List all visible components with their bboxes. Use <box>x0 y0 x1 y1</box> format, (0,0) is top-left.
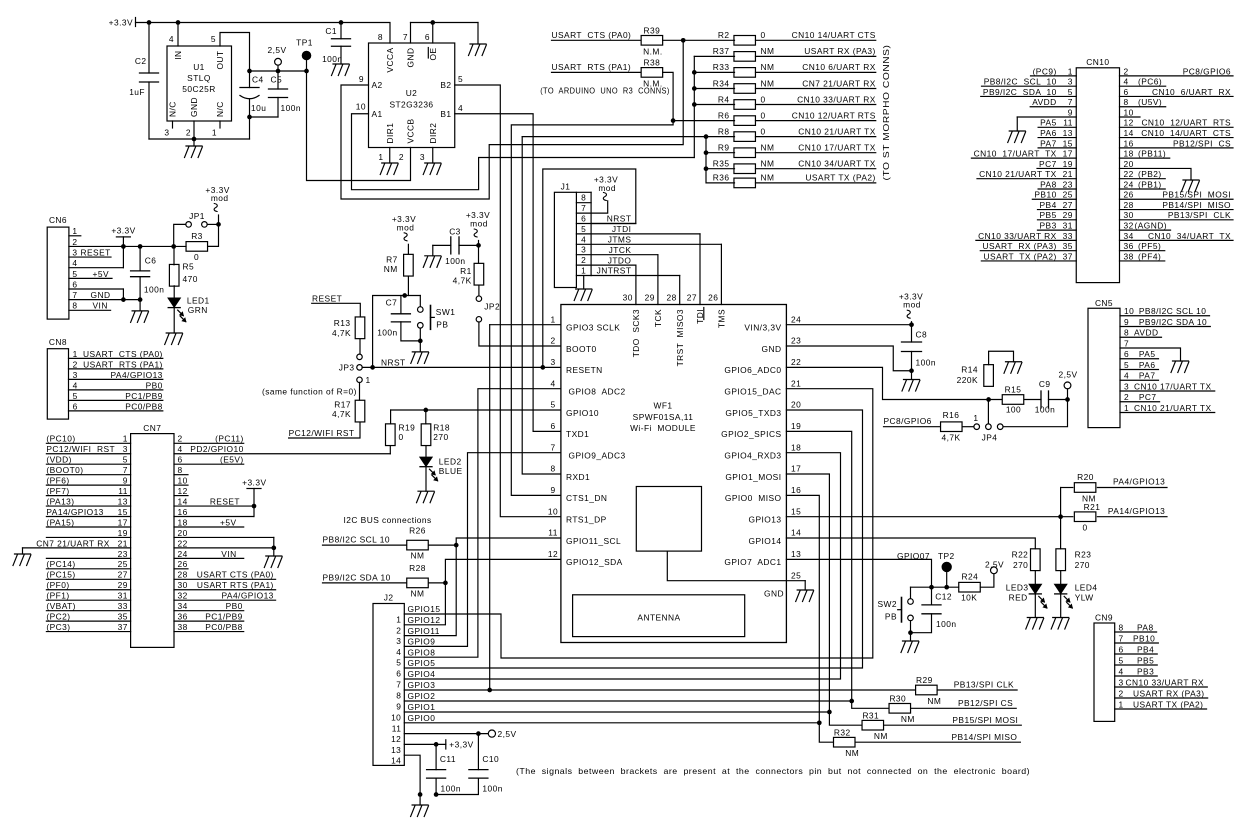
wire CN10 pin 24 <box>1120 188 1166 190</box>
svg-text:PC8/GPIO6: PC8/GPIO6 <box>884 416 932 426</box>
wire CN10 pin 17 <box>971 157 1076 159</box>
svg-text:PB9/I2C SDA 10: PB9/I2C SDA 10 <box>1139 317 1207 327</box>
svg-text:PC1/PB9: PC1/PB9 <box>125 391 163 401</box>
svg-text:(U5V): (U5V) <box>1138 97 1162 107</box>
svg-text:2: 2 <box>186 128 191 138</box>
wire module GPIO3-SCLK pin1 row <box>490 324 561 326</box>
wire CN10 pin 14 <box>1120 137 1234 139</box>
svg-text:16: 16 <box>178 507 188 517</box>
wire module GPIO0_MISO to J2 GPIO0 and R32 <box>786 495 833 742</box>
svg-text:9: 9 <box>1068 107 1073 117</box>
resistor R36 <box>734 178 756 188</box>
svg-text:C1: C1 <box>325 26 337 36</box>
wire CN7 pin 7 <box>46 474 130 476</box>
svg-text:CN10 17/UART TX: CN10 17/UART TX <box>974 149 1057 159</box>
svg-text:(PF1): (PF1) <box>46 591 69 601</box>
svg-text:11: 11 <box>1063 118 1073 128</box>
svg-text:PC7: PC7 <box>1039 159 1057 169</box>
svg-text:CN10 14/UART CTS: CN10 14/UART CTS <box>1141 128 1231 138</box>
wire CN10 pin 22 <box>1120 178 1166 180</box>
antenna block <box>573 595 745 637</box>
wire module GPIO11_SCL to J2 <box>404 538 561 636</box>
svg-text:100n: 100n <box>1035 405 1055 415</box>
svg-text:2,5V: 2,5V <box>985 559 1004 569</box>
svg-text:Wi-Fi MODULE: Wi-Fi MODULE <box>630 423 696 433</box>
svg-text:5: 5 <box>396 658 401 668</box>
ground (LED3) <box>1026 618 1044 630</box>
svg-text:GPIO2: GPIO2 <box>408 691 436 701</box>
svg-text:4,7K: 4,7K <box>332 328 351 338</box>
svg-text:JP4: JP4 <box>982 433 998 443</box>
svg-text:5: 5 <box>72 269 77 279</box>
svg-text:R30: R30 <box>889 693 906 703</box>
regulator U1 <box>167 46 232 121</box>
svg-text:270: 270 <box>1013 560 1028 570</box>
svg-text:1: 1 <box>212 128 217 138</box>
svg-text:CN7 21/UART RX: CN7 21/UART RX <box>802 78 875 88</box>
svg-text:(PC14): (PC14) <box>46 559 75 569</box>
svg-text:GPIO12_SDA: GPIO12_SDA <box>566 557 623 567</box>
wire net USART_CTS to U2 A2 <box>341 40 683 199</box>
svg-text:mod: mod <box>397 222 415 232</box>
svg-text:USART TX (PA2): USART TX (PA2) <box>1133 699 1203 709</box>
svg-text:R1: R1 <box>460 266 472 276</box>
svg-text:PB12/SPI CS: PB12/SPI CS <box>1173 138 1231 148</box>
wire CN9 pin 1 <box>1115 708 1207 710</box>
wire CN10 pin 35 <box>980 250 1076 252</box>
svg-text:4: 4 <box>396 647 401 657</box>
svg-text:R29: R29 <box>916 675 933 685</box>
resistor R38 <box>641 68 663 78</box>
wire CN7 pin 14 <box>174 505 254 507</box>
svg-text:(PC11): (PC11) <box>215 434 244 444</box>
svg-text:GPIO14: GPIO14 <box>749 536 782 546</box>
svg-text:20: 20 <box>178 528 188 538</box>
svg-text:R7: R7 <box>386 254 398 264</box>
svg-text:R34: R34 <box>713 78 730 88</box>
svg-text:3: 3 <box>396 636 401 646</box>
svg-text:PB3: PB3 <box>1137 666 1154 676</box>
svg-text:24: 24 <box>1124 179 1134 189</box>
svg-text:R17: R17 <box>334 399 351 409</box>
connector CN10 <box>1076 68 1119 283</box>
svg-text:7: 7 <box>403 32 408 42</box>
resistor R2 <box>734 36 756 46</box>
wire CN7 pin 10 <box>174 484 188 486</box>
svg-text:35: 35 <box>1063 241 1073 251</box>
svg-text:PA14/GPIO13: PA14/GPIO13 <box>46 507 103 517</box>
wire CN10 pin 28 <box>1120 209 1234 211</box>
svg-text:JNTRST: JNTRST <box>597 266 632 276</box>
svg-text:GND: GND <box>406 48 416 68</box>
resistor R17 <box>359 382 361 400</box>
svg-text:9: 9 <box>123 476 128 486</box>
svg-text:PC12/WIFI RST: PC12/WIFI RST <box>289 428 355 438</box>
svg-text:18: 18 <box>178 517 188 527</box>
svg-text:6: 6 <box>396 669 401 679</box>
svg-text:USART CTS (PA0): USART CTS (PA0) <box>83 349 163 359</box>
svg-text:N.M.: N.M. <box>643 47 662 57</box>
svg-text:CN10 17/UART TX: CN10 17/UART TX <box>1134 381 1212 391</box>
svg-text:CN7 21/UART RX: CN7 21/UART RX <box>36 538 109 548</box>
resistor R29 <box>916 685 938 695</box>
svg-text:PC0/PB8: PC0/PB8 <box>205 622 243 632</box>
svg-text:2,5V: 2,5V <box>498 729 517 739</box>
svg-text:29: 29 <box>645 293 655 303</box>
svg-text:4: 4 <box>581 234 586 244</box>
svg-text:LED3: LED3 <box>1006 583 1029 593</box>
svg-text:3: 3 <box>420 152 425 162</box>
svg-text:R16: R16 <box>943 410 960 420</box>
svg-text:1: 1 <box>123 434 128 444</box>
svg-text:OUT: OUT <box>215 51 225 70</box>
resistor R3 <box>208 224 219 246</box>
ground (CN5) <box>1171 361 1189 373</box>
svg-text:10: 10 <box>1124 107 1134 117</box>
svg-text:+3.3V: +3.3V <box>242 477 266 487</box>
ground (CN10 pin9) <box>1008 131 1026 143</box>
resistor R9 <box>734 148 756 158</box>
svg-text:(The signals between bracke: (The signals between brackets are presen… <box>516 766 1030 776</box>
svg-text:RESETN: RESETN <box>566 365 603 375</box>
svg-text:35: 35 <box>118 612 128 622</box>
svg-text:C7: C7 <box>386 298 398 308</box>
wire/net CN10 33/UART RX <box>756 104 876 106</box>
svg-text:YLW: YLW <box>1075 592 1094 602</box>
svg-text:IN: IN <box>173 51 183 60</box>
svg-text:29: 29 <box>118 580 128 590</box>
svg-text:CN10 14/UART CTS: CN10 14/UART CTS <box>792 30 876 40</box>
svg-text:AVDD: AVDD <box>1134 328 1158 338</box>
wire/net USART TX (PA2) <box>756 182 876 184</box>
svg-text:(PC9): (PC9) <box>1033 66 1057 76</box>
wire CN7 pin 24 <box>174 557 244 559</box>
wire CN6 GND link rows6-7 <box>122 289 124 300</box>
svg-text:B2: B2 <box>440 80 451 90</box>
svg-text:CN9: CN9 <box>1095 613 1113 623</box>
svg-text:R20: R20 <box>1077 472 1094 482</box>
svg-text:JTMS: JTMS <box>608 235 632 245</box>
svg-text:USART CTS (PA0): USART CTS (PA0) <box>197 570 274 580</box>
wire J2 row14 to ground <box>404 755 420 794</box>
svg-text:21: 21 <box>1063 169 1073 179</box>
svg-text:5: 5 <box>1119 655 1124 665</box>
resistor R6 <box>734 116 756 126</box>
svg-text:4: 4 <box>458 103 463 113</box>
svg-text:GPIO9: GPIO9 <box>408 637 436 647</box>
wire/net PA4/GPIO13 <box>1097 487 1167 489</box>
svg-text:C11: C11 <box>440 754 456 764</box>
svg-text:1: 1 <box>550 314 555 324</box>
svg-text:JTDI: JTDI <box>612 224 631 234</box>
svg-text:37: 37 <box>118 622 128 632</box>
resistor R26 <box>407 540 429 550</box>
svg-text:TDO SCK3: TDO SCK3 <box>631 309 641 357</box>
svg-text:STLQ: STLQ <box>187 73 211 83</box>
wire CN8 pin 1 USART CTS (PA0) <box>69 357 163 359</box>
svg-text:8: 8 <box>581 193 586 203</box>
wire module GND pin23 <box>786 346 911 371</box>
svg-text:CN10 33/UART RX: CN10 33/UART RX <box>797 94 876 104</box>
wire CN7 pin 34 <box>174 610 244 612</box>
wire module GPIO4_RXD3 to J2 GPIO4 <box>404 453 840 679</box>
power 2.5V (J2) <box>488 730 495 737</box>
svg-text:R36: R36 <box>713 173 730 183</box>
wire module GPIO13 row <box>786 516 1072 518</box>
capacitor C2 <box>148 23 150 74</box>
svg-text:GPIO3: GPIO3 <box>408 680 436 690</box>
svg-text:USART CTS (PA0): USART CTS (PA0) <box>552 30 632 40</box>
resistor R34 <box>734 84 756 94</box>
svg-text:1: 1 <box>396 615 401 625</box>
svg-text:13: 13 <box>1063 128 1073 138</box>
ground (C3) <box>432 245 434 255</box>
svg-text:USART RX (PA3): USART RX (PA3) <box>1133 688 1204 698</box>
svg-text:1: 1 <box>1119 699 1124 709</box>
wire CN10 pin 18 <box>1120 157 1170 159</box>
svg-text:GPIO13: GPIO13 <box>749 514 782 524</box>
wire module GPIO14 row <box>786 538 1035 549</box>
connector CN9 <box>1094 623 1115 721</box>
wire CN5 pin 4 <box>1120 379 1159 381</box>
wire CN10 pin 9 <box>1017 116 1076 118</box>
wire module GPIO12_SDA to J2 <box>404 559 561 624</box>
svg-text:CN10 34/UART TX: CN10 34/UART TX <box>798 159 876 169</box>
power +3.3V (CN6) <box>116 236 130 238</box>
wire CN6 pin 8 <box>69 309 111 311</box>
svg-text:(PB1): (PB1) <box>1138 179 1162 189</box>
svg-text:16: 16 <box>1124 138 1134 148</box>
svg-text:R31: R31 <box>862 710 879 720</box>
wire module GND pin25 <box>667 551 805 581</box>
wire/net CN10 12/UART RTS <box>756 120 876 122</box>
capacitor C11 <box>435 744 437 769</box>
resistor R15 <box>1002 395 1024 405</box>
svg-text:4: 4 <box>550 378 555 388</box>
svg-text:PB5: PB5 <box>1040 210 1057 220</box>
wire CN10 pin 21 <box>977 178 1076 180</box>
ground (CN10 pin20) <box>1182 180 1200 192</box>
svg-text:PA5: PA5 <box>1040 118 1057 128</box>
ground (CN7 rows 20/22) <box>273 537 275 556</box>
svg-text:GPIO1_MOSI: GPIO1_MOSI <box>725 472 781 482</box>
svg-text:SW1: SW1 <box>436 307 456 317</box>
wire CN7 pin 5 <box>46 463 130 465</box>
svg-text:0: 0 <box>194 252 199 262</box>
wifi module WF1 <box>561 305 787 643</box>
wire CN10 pin 3 <box>982 85 1077 87</box>
ground (J2/C10/C11) <box>411 805 429 817</box>
svg-text:CN10 33/UART RX: CN10 33/UART RX <box>978 231 1057 241</box>
svg-text:27: 27 <box>118 570 128 580</box>
svg-text:8: 8 <box>72 301 77 311</box>
svg-text:R24: R24 <box>962 572 979 582</box>
svg-text:R38: R38 <box>644 58 661 68</box>
resistor R20 <box>1060 488 1062 517</box>
LED LED2 <box>420 457 432 466</box>
svg-text:8: 8 <box>550 464 555 474</box>
wire CN7 pin 38 <box>174 631 244 633</box>
capacitor C8 <box>911 325 913 342</box>
svg-text:CN10: CN10 <box>1086 57 1109 67</box>
svg-text:(BOOT0): (BOOT0) <box>46 465 83 475</box>
svg-text:OE: OE <box>428 48 438 61</box>
svg-text:TP2: TP2 <box>938 551 955 561</box>
svg-text:17: 17 <box>791 464 801 474</box>
svg-text:CN10 17/UART TX: CN10 17/UART TX <box>798 143 876 153</box>
svg-text:22: 22 <box>178 538 188 548</box>
svg-text:1: 1 <box>72 226 77 236</box>
wire module GPIO1_MOSI to J2 GPIO1 and R31 <box>786 474 861 725</box>
wire CN10 pin 25 <box>1032 198 1076 200</box>
svg-text:33: 33 <box>118 601 128 611</box>
wire module GPIO5_TXD3 to J2 GPIO5 <box>404 410 862 668</box>
svg-text:31: 31 <box>118 591 128 601</box>
svg-text:PA5: PA5 <box>1139 349 1156 359</box>
svg-text:NM: NM <box>384 264 398 274</box>
wire J1 JTCK <box>591 254 658 256</box>
svg-text:+3,3V: +3,3V <box>449 740 473 750</box>
wire CN7 pin 32 <box>174 599 276 601</box>
svg-text:PB9/I2C SDA 10: PB9/I2C SDA 10 <box>323 573 391 583</box>
wire/net CN10 17/UART TX <box>756 152 876 154</box>
wire module GPIO15_DAC to J2 GPIO15 <box>404 389 873 658</box>
wire CN7 pin 20 <box>174 536 274 538</box>
wire CN10 pin 19 <box>1037 167 1076 169</box>
connector CN7 <box>131 434 174 648</box>
svg-text:7: 7 <box>1119 633 1124 643</box>
svg-text:23: 23 <box>1063 179 1073 189</box>
wire CN7 pin 25 <box>46 568 130 570</box>
wire CN10 pin 10 <box>1120 116 1141 118</box>
svg-text:SPWF01SA,11: SPWF01SA,11 <box>633 412 694 422</box>
connector J1 <box>554 192 576 287</box>
svg-text:R21: R21 <box>1084 502 1101 512</box>
wire U2 B2 to module RTS1_DP <box>455 85 561 517</box>
svg-text:BOOT0: BOOT0 <box>566 344 597 354</box>
svg-text:JTCK: JTCK <box>609 245 632 255</box>
svg-text:R15: R15 <box>1005 385 1022 395</box>
module internal block <box>636 487 701 552</box>
svg-text:17: 17 <box>1063 149 1073 159</box>
svg-text:0: 0 <box>761 30 766 40</box>
wire JP1 right leg <box>207 223 218 225</box>
wire/net PB13/SPI CLK <box>938 689 1017 691</box>
svg-text:GND: GND <box>189 97 199 117</box>
svg-text:CN10 33/UART RX: CN10 33/UART RX <box>1126 677 1205 687</box>
wire +3.3V rail <box>136 23 391 44</box>
connector CN5 <box>1088 308 1120 427</box>
svg-text:21: 21 <box>791 378 801 388</box>
svg-text:AVDD: AVDD <box>1032 97 1056 107</box>
wire CN7 pin 35 <box>46 620 130 622</box>
svg-text:6: 6 <box>1124 349 1129 359</box>
svg-text:NM: NM <box>761 46 775 56</box>
svg-text:5: 5 <box>123 455 128 465</box>
resistor R33 <box>734 68 756 78</box>
svg-text:(VDD): (VDD) <box>46 455 72 465</box>
svg-text:30: 30 <box>178 580 188 590</box>
svg-text:VIN/3,3V: VIN/3,3V <box>744 323 781 333</box>
svg-text:(PF7): (PF7) <box>46 486 69 496</box>
wire R28 out <box>429 582 446 584</box>
svg-text:8: 8 <box>1124 328 1129 338</box>
svg-text:CN10 12/UART RTS: CN10 12/UART RTS <box>792 110 876 120</box>
svg-text:NM: NM <box>411 589 425 599</box>
jumper JP4 <box>974 424 980 430</box>
svg-text:U1: U1 <box>193 62 205 72</box>
svg-text:+5V: +5V <box>220 517 237 527</box>
wire CN7 pin 9 <box>46 484 130 486</box>
svg-text:R35: R35 <box>713 159 730 169</box>
svg-text:2: 2 <box>399 152 404 162</box>
svg-text:R5: R5 <box>183 262 195 272</box>
svg-text:1: 1 <box>1068 66 1073 76</box>
svg-text:NM: NM <box>901 714 915 724</box>
svg-text:10: 10 <box>1124 306 1134 316</box>
svg-text:PB14/SPI MISO: PB14/SPI MISO <box>1162 200 1231 210</box>
wire/net CN10 21/UART TX <box>756 136 876 138</box>
wire CN10 pin 26 <box>1120 198 1234 200</box>
svg-text:100n: 100n <box>916 357 936 367</box>
svg-text:NRST: NRST <box>607 214 632 224</box>
svg-text:6: 6 <box>178 455 183 465</box>
svg-text:7: 7 <box>123 465 128 475</box>
svg-text:R26: R26 <box>409 525 426 535</box>
wire CN6 pin 5 <box>69 277 112 279</box>
svg-text:PA7: PA7 <box>1139 371 1156 381</box>
svg-text:0: 0 <box>399 432 404 442</box>
svg-text:18: 18 <box>791 442 801 452</box>
svg-text:CTS1_DN: CTS1_DN <box>566 493 607 503</box>
svg-text:R39: R39 <box>644 26 661 36</box>
svg-text:GPIO6_ADC0: GPIO6_ADC0 <box>724 365 781 375</box>
svg-text:11: 11 <box>392 723 402 733</box>
svg-text:GPIO5: GPIO5 <box>408 658 436 668</box>
svg-text:100: 100 <box>1006 405 1021 415</box>
svg-text:100n: 100n <box>482 784 502 794</box>
svg-text:7: 7 <box>1124 338 1129 348</box>
svg-text:2,5V: 2,5V <box>1058 369 1077 379</box>
svg-text:R13: R13 <box>334 318 351 328</box>
svg-text:PC0/PB8: PC0/PB8 <box>125 401 163 411</box>
wire CN7 pin 12 <box>174 495 188 497</box>
svg-text:(PC2): (PC2) <box>46 612 70 622</box>
svg-text:26: 26 <box>1124 190 1134 200</box>
svg-text:NM: NM <box>927 696 941 706</box>
wire 2.5V to JP4 <box>1003 400 1068 427</box>
wire R37/R33/R34/R4 input bus <box>694 55 734 57</box>
jumper JP1 <box>186 222 192 228</box>
svg-text:PB10: PB10 <box>1133 633 1155 643</box>
wire R19 to CN7 PD2/GPIO10 <box>389 446 391 454</box>
svg-text:VCCA: VCCA <box>385 48 395 73</box>
svg-text:3: 3 <box>581 245 586 255</box>
svg-text:R9: R9 <box>718 143 730 153</box>
svg-text:15: 15 <box>791 506 801 516</box>
svg-text:26: 26 <box>708 293 718 303</box>
svg-text:TRST MISO3: TRST MISO3 <box>675 309 685 366</box>
svg-text:GPIO8: GPIO8 <box>408 647 436 657</box>
svg-text:10: 10 <box>356 102 366 112</box>
svg-text:USART RTS (PA1): USART RTS (PA1) <box>83 359 163 369</box>
wire CN7 pin 3 <box>46 453 130 455</box>
svg-text:PA6: PA6 <box>1040 128 1057 138</box>
svg-text:R33: R33 <box>713 62 730 72</box>
svg-text:32: 32 <box>178 591 188 601</box>
svg-text:+3.3V: +3.3V <box>109 18 133 28</box>
svg-text:C6: C6 <box>145 255 157 265</box>
